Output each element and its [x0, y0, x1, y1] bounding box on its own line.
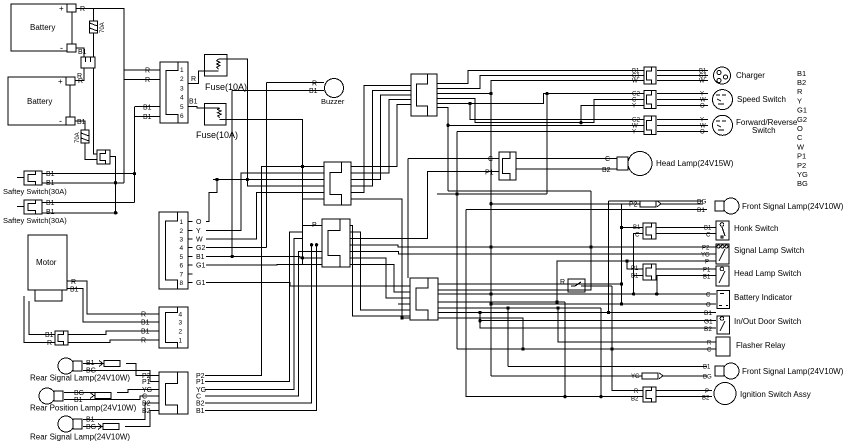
svg-text:B1: B1: [704, 226, 712, 232]
svg-text:-: -: [60, 43, 63, 53]
junction x508 r5: [506, 306, 509, 309]
wire P2 to front lamp1: [491, 203, 640, 205]
svg-text:+: +: [58, 77, 63, 86]
svg-text:B2: B2: [631, 397, 639, 403]
svg-text:4: 4: [180, 95, 184, 102]
wire J4 G1b to conn3: [206, 283, 410, 287]
wire x466 vertical ignition B2: [466, 210, 643, 397]
svg-text:O: O: [700, 104, 705, 110]
wire motor tab bottom down: [29, 301, 55, 335]
svg-text:W: W: [196, 237, 203, 244]
wire headlamp C right: [516, 158, 617, 160]
wire motor R to 4pin: [67, 281, 159, 314]
svg-text:R: R: [47, 340, 52, 347]
wire conn2b r2 to conn3 l5: [350, 232, 410, 310]
svg-text:Y: Y: [196, 228, 201, 235]
wire conn3 r1 row: [438, 283, 622, 285]
svg-text:W: W: [699, 79, 705, 85]
svg-text:BG: BG: [86, 424, 96, 431]
svg-text:B2: B2: [142, 401, 151, 408]
wire relay right: [585, 285, 612, 287]
connector C1 main top: [411, 74, 437, 116]
svg-text:4: 4: [179, 312, 183, 319]
svg-text:Saftey Switch(30A): Saftey Switch(30A): [3, 187, 67, 196]
connector headlamp sw plug: [643, 264, 656, 280]
junction x302 conn2b l6: [301, 256, 304, 259]
svg-text:G1: G1: [797, 106, 807, 115]
wire conn3 r3 battery C row: [438, 293, 716, 295]
fuse F3 10A: [205, 54, 227, 75]
connector C2b middle: [322, 219, 350, 267]
svg-text:C: C: [488, 156, 493, 163]
svg-text:P2: P2: [702, 246, 710, 252]
wire lamp2 BG row: [64, 392, 95, 394]
wire J4 O staircase: [206, 180, 217, 222]
svg-text:3: 3: [180, 237, 184, 244]
junction honk C on C row: [632, 292, 635, 295]
junction speed Y riser: [579, 121, 582, 124]
svg-text:C: C: [707, 348, 712, 354]
buzzer: [325, 79, 344, 98]
front signal lamp 2: [715, 363, 739, 379]
connector fwd/rev plug: [644, 116, 656, 135]
battery indicator: [717, 291, 730, 309]
svg-text:O: O: [700, 130, 705, 136]
svg-text:BG: BG: [697, 199, 706, 206]
junction hlsw P1 on P row: [625, 259, 628, 262]
svg-text:Battery Indicator: Battery Indicator: [734, 293, 793, 302]
junction FR G2 riser: [468, 102, 471, 105]
wire J4 Y to conn2a: [206, 173, 324, 230]
svg-text:B1: B1: [70, 287, 79, 294]
inline fuse front lamp1 P2: [640, 201, 661, 207]
stub J4 pin 1 right: [188, 221, 193, 223]
svg-text:BG: BG: [74, 390, 84, 397]
wire door G1 row: [480, 320, 716, 322]
wire lamp1 BG row: [83, 371, 159, 382]
svg-text:BG: BG: [797, 179, 808, 188]
svg-text:P1: P1: [196, 379, 205, 386]
svg-text:O: O: [706, 303, 711, 309]
svg-text:O: O: [196, 219, 202, 226]
wire ign P: [656, 390, 712, 392]
wire speed W: [657, 99, 708, 101]
junction x491 top: [489, 92, 492, 95]
wire J3 YG riser: [205, 238, 302, 389]
svg-text:B1: B1: [703, 365, 711, 371]
junction x491 C row: [489, 292, 492, 295]
svg-text:7: 7: [180, 271, 184, 278]
svg-text:B1: B1: [46, 171, 55, 178]
svg-text:Y: Y: [632, 104, 636, 110]
wire battery2 - to fuse2: [75, 121, 85, 130]
wire headlamp B2 right: [516, 168, 617, 170]
wire hlsw B1: [656, 275, 716, 277]
svg-text:B1: B1: [697, 207, 705, 214]
svg-text:Rear Signal Lamp(24V10W): Rear Signal Lamp(24V10W): [30, 374, 130, 383]
svg-text:R: R: [145, 68, 150, 75]
svg-text:B1: B1: [46, 200, 55, 207]
svg-text:Head Lamp(24V15W): Head Lamp(24V15W): [656, 159, 734, 168]
svg-text:P1: P1: [142, 379, 151, 386]
connector J2 4-pin: [159, 307, 188, 348]
wire 6pin B1 row2 tap: [135, 116, 161, 118]
stub J4 pin 6 right: [188, 264, 193, 266]
junction bus / safety1: [114, 181, 117, 184]
wire B1 bus from 6pin: [134, 107, 136, 202]
wire J4 W to conn2a: [206, 193, 324, 240]
svg-text:W: W: [632, 123, 638, 129]
wire bundle conn1-conn2a 1: [351, 86, 411, 193]
svg-text:B1: B1: [46, 180, 55, 187]
connector honk plug: [643, 223, 656, 239]
head lamp: [617, 152, 652, 176]
svg-text:Rear Signal Lamp(24V10W): Rear Signal Lamp(24V10W): [30, 433, 130, 442]
svg-text:B1: B1: [633, 225, 641, 231]
svg-text:B1: B1: [143, 105, 152, 112]
wire hlsw B1 riser from C row: [656, 276, 658, 294]
wire fuse2 to main connector: [85, 143, 97, 160]
wire conn2b r7 to conn3 l2: [350, 264, 410, 292]
svg-text:6: 6: [180, 113, 184, 120]
motor M box: [28, 235, 67, 301]
junction x608 door B1: [607, 311, 610, 314]
svg-text:Battery: Battery: [27, 97, 52, 106]
junction hlsw B1 on C row: [655, 292, 658, 295]
stub J4 pin 2 right: [188, 229, 193, 231]
wire bundle conn1-conn2a 3: [351, 95, 411, 180]
svg-text:R: R: [141, 338, 146, 345]
wire conn3 r5: [438, 307, 601, 309]
connector main power: [97, 150, 110, 164]
wire fuse1 out: [219, 59, 325, 186]
wire conn2a l6 stub: [303, 198, 325, 200]
wire conn2a r6 to conn3 l7: [351, 199, 410, 318]
junction y191 riser on P2 row: [589, 245, 592, 248]
svg-text:B1: B1: [309, 88, 318, 95]
wire ign B2: [656, 396, 712, 398]
svg-text:Y: Y: [632, 130, 636, 136]
wire fuse2 out to x302: [220, 120, 303, 265]
inline fuse rear lamp2: [90, 393, 111, 399]
junction x523 flasher C: [521, 347, 524, 350]
svg-text:B1: B1: [45, 332, 54, 339]
wire conn3 l4 stub: [398, 303, 410, 305]
wire honk B1 to switch: [656, 227, 716, 229]
svg-text:B2: B2: [797, 78, 806, 87]
wire J1 row5: [135, 106, 161, 108]
wire x408 vertical: [407, 159, 409, 279]
wire x457 riser: [456, 132, 458, 350]
wire fuse branch down to main connector: [94, 68, 98, 154]
connector J3 rear harness: [159, 372, 188, 414]
wire door B2 feed: [480, 313, 716, 329]
wire buzzer R feed: [267, 82, 325, 84]
wire small conn out B1: [68, 331, 159, 335]
wire J4 G1 to conn2b: [206, 263, 322, 266]
safety switch SW1 30A: [24, 171, 42, 185]
wire honk C riser: [634, 234, 643, 294]
junction P2 row x491: [489, 245, 492, 248]
battery B1 box: [11, 4, 76, 53]
svg-text:70A: 70A: [75, 132, 81, 143]
wire fwd/rev Y: [657, 118, 708, 120]
head lamp switch: [716, 266, 729, 286]
wire conn2b r5 YG long: [350, 251, 716, 254]
junction x457 y194: [455, 192, 458, 195]
svg-text:R: R: [80, 6, 85, 13]
wire conn1 r2 to charger C1: [437, 76, 644, 89]
wire lamp3 BG to conn B1: [125, 410, 159, 426]
wire safety1 top row: [42, 173, 135, 175]
wire front lamp2 B1: [508, 366, 707, 368]
junction J3 B2 riser: [310, 243, 313, 246]
svg-text:2: 2: [180, 76, 184, 83]
stub J4 pin 8 right: [188, 282, 193, 284]
wire safety2 top row to B1 bus: [42, 201, 135, 203]
in/out door switch: [717, 316, 730, 334]
svg-text:G2: G2: [196, 245, 205, 252]
svg-text:P: P: [705, 260, 709, 266]
wire x508 riser: [507, 308, 509, 367]
svg-text:P1: P1: [703, 268, 711, 274]
svg-text:B2: B2: [702, 396, 710, 402]
inline fuse front lamp2 YG: [642, 373, 663, 379]
fuse F4 10A: [205, 104, 227, 126]
wire lamp3 BG row: [83, 426, 103, 428]
svg-text:Y: Y: [797, 96, 802, 105]
wire conn1 r4 to speed C: [437, 99, 644, 123]
ignition switch assy: [714, 383, 736, 405]
svg-text:P1: P1: [485, 170, 494, 177]
rear position lamp: [39, 388, 63, 404]
wire motor B1 to 4pin: [67, 289, 159, 323]
wire front lamp1 BG: [609, 200, 704, 202]
svg-text:Head Lamp Switch: Head Lamp Switch: [734, 269, 801, 278]
svg-text:R: R: [797, 87, 803, 96]
wire V266 buzzer R bus: [266, 83, 268, 248]
wire front lamp1 B1 from x466: [466, 209, 707, 211]
junction fuse1 line l3: [246, 178, 249, 181]
svg-text:Front Signal Lamp(24V10W): Front Signal Lamp(24V10W): [742, 367, 844, 376]
svg-text:-: -: [59, 116, 62, 126]
svg-text:B1: B1: [797, 69, 806, 78]
svg-text:B2: B2: [142, 408, 151, 415]
svg-text:Charger: Charger: [736, 71, 765, 80]
junction x402 conn3 l7: [400, 316, 403, 319]
fwd/rev switch socket: [713, 115, 733, 135]
wire bundle conn1-conn2a 2: [351, 90, 411, 186]
svg-text:1: 1: [179, 338, 183, 345]
wire J4 B1 to conn2b: [206, 256, 322, 258]
svg-text:R: R: [312, 81, 317, 88]
rear signal lamp 1: [58, 358, 82, 374]
wire buzzer B1 feed: [232, 90, 324, 92]
speed switch socket: [713, 90, 733, 110]
wire J4 G2 to buzzer R bus: [206, 247, 267, 249]
svg-text:R: R: [141, 312, 146, 319]
wire conn3 r6 door B1 row: [438, 312, 716, 314]
svg-text:Buzzer: Buzzer: [321, 97, 345, 106]
wire J1 B1 to fuse 10A no.2: [188, 106, 220, 108]
svg-text:5: 5: [180, 104, 184, 111]
wire J3 C riser: [205, 251, 322, 396]
svg-text:C: C: [797, 133, 803, 142]
svg-text:2: 2: [180, 228, 184, 235]
wire conn2a l3 long: [213, 179, 324, 181]
svg-text:Signal Lamp Switch: Signal Lamp Switch: [734, 246, 804, 255]
junction FR W x448: [446, 124, 449, 127]
svg-text:1: 1: [180, 219, 184, 226]
battery B2 box: [8, 77, 75, 126]
junction honk B1 on x621: [620, 226, 623, 229]
svg-text:C: C: [706, 293, 711, 299]
svg-text:P1: P1: [797, 152, 806, 161]
connector speed plug: [644, 91, 656, 109]
connector C2a middle: [324, 162, 351, 205]
wire x591 riser: [438, 191, 591, 290]
wire fuse2 arrow to lamp: [663, 375, 707, 377]
svg-text:B2: B2: [704, 326, 712, 333]
wire bundle conn1-conn2a 4: [351, 100, 411, 173]
wire x608 vertical: [608, 201, 610, 313]
svg-text:B1: B1: [141, 320, 150, 327]
wire J3 P2 riser: [205, 167, 324, 376]
svg-text:YG: YG: [631, 374, 640, 380]
svg-text:B2: B2: [196, 401, 205, 408]
wire fwd/rev W: [657, 124, 708, 126]
wire flasher C row: [457, 348, 716, 350]
wire lamp1 B1 row: [83, 363, 104, 365]
junction x601 ign B2: [599, 395, 602, 398]
connector charger plug: [644, 67, 656, 84]
svg-text:B2: B2: [602, 167, 611, 174]
wire speed Y riser: [581, 106, 644, 123]
junction r5 x558: [556, 306, 559, 309]
svg-text:Saftey Switch(30A): Saftey Switch(30A): [3, 216, 67, 225]
svg-text:G2: G2: [797, 115, 807, 124]
rear signal lamp 2: [58, 416, 82, 432]
svg-text:C: C: [706, 233, 711, 239]
svg-text:P2: P2: [629, 202, 638, 209]
wire headlamp C feed: [408, 158, 499, 160]
svg-text:Honk Switch: Honk Switch: [734, 224, 778, 233]
wire fuse arrow to lamp: [661, 203, 703, 205]
junction V232 on B1 pin row: [231, 255, 234, 258]
svg-text:B1: B1: [77, 119, 86, 126]
svg-text:G1: G1: [196, 280, 205, 287]
signal lamp switch: [716, 244, 729, 264]
wire x491 long vertical: [490, 94, 492, 376]
svg-text:C: C: [605, 156, 610, 163]
wire conn2b r3 to headlamp P1: [350, 172, 499, 239]
connector J4 8-pin: [159, 212, 188, 289]
wire x612 vertical: [612, 286, 643, 391]
connector headlamp plug: [499, 152, 516, 180]
junction r1 x621: [620, 282, 623, 285]
wire FR Y row: [457, 131, 644, 133]
wire charger C1: [657, 75, 708, 77]
svg-text:5: 5: [180, 254, 184, 261]
svg-text:R: R: [71, 279, 76, 286]
svg-text:B1: B1: [631, 274, 639, 280]
wire J1 R to fuse 10A no.1: [188, 71, 219, 84]
svg-text:P2: P2: [797, 161, 806, 170]
junction x565 ign B2: [563, 395, 566, 398]
svg-text:YG: YG: [701, 253, 710, 259]
svg-text:Rear Position Lamp(24V10W): Rear Position Lamp(24V10W): [30, 404, 137, 413]
wire battery1 + to connector bus: [94, 9, 125, 70]
junction x547 G2 row: [545, 92, 548, 95]
wire honk B1 stub: [622, 227, 644, 229]
wire speed O: [657, 105, 708, 107]
wire conn1 r6 x448 down: [437, 108, 448, 192]
svg-text:R: R: [560, 279, 565, 286]
svg-text:Speed Switch: Speed Switch: [737, 95, 786, 104]
svg-text:4: 4: [180, 245, 184, 252]
svg-text:B1: B1: [143, 114, 152, 121]
wire fuse 70A to plug: [93, 33, 95, 57]
junction x491 O row: [489, 302, 492, 305]
svg-text:W: W: [632, 79, 638, 85]
svg-text:R: R: [707, 341, 712, 347]
stub J4 pin 4 right: [188, 247, 193, 249]
wire J3 B2 riser: [205, 245, 312, 403]
wire conn2b l1 stub: [303, 224, 323, 226]
connector C3 lower middle: [410, 278, 438, 320]
connector ignition plug: [643, 387, 656, 402]
stub J4 pin 5 right: [188, 255, 193, 257]
wire conn2b r4 P2 long: [350, 245, 716, 247]
wire charger W: [657, 80, 708, 82]
wire battery1 + to fuse 70A: [76, 9, 94, 21]
svg-text:+: +: [59, 4, 64, 13]
safety1 stub: [17, 177, 24, 179]
stub J4 pin 7 right: [188, 273, 193, 275]
flasher relay: [716, 337, 730, 356]
wire FR W row: [448, 124, 644, 126]
junction x621 on O row: [620, 302, 623, 305]
svg-text:C: C: [142, 394, 147, 401]
front signal lamp 1: [715, 198, 739, 214]
wire motor tab left down: [24, 296, 55, 343]
wire V232 buzzer B1 bus: [231, 91, 233, 257]
safety2 stub: [17, 206, 24, 208]
wire front lamp2 BG left: [491, 375, 642, 377]
svg-text:R: R: [634, 389, 639, 395]
wire plug to battery2 +: [75, 68, 84, 81]
plug connector battery series: [81, 57, 95, 68]
connector motor small: [55, 331, 68, 345]
wire x565 to ignition B2: [564, 302, 566, 397]
junction x480 G1 row: [478, 319, 481, 322]
svg-text:C: C: [635, 233, 640, 239]
charger socket: [714, 67, 731, 84]
wire conn1 r3 to charger W: [437, 81, 644, 94]
svg-text:G1: G1: [196, 263, 205, 270]
svg-text:R: R: [145, 77, 150, 84]
svg-text:1: 1: [180, 67, 184, 74]
inline fuse rear lamp1: [99, 361, 120, 367]
wire conn1 r1 to charger B1: [437, 70, 644, 83]
junction J3 B1 riser: [315, 243, 318, 246]
wire safety2 bottom row: [42, 212, 116, 214]
svg-text:In/Out Door Switch: In/Out Door Switch: [734, 317, 801, 326]
junction bus / safety2 top: [114, 211, 117, 214]
junction x612 flasher C: [610, 347, 613, 350]
svg-text:R: R: [191, 76, 196, 83]
svg-text:G1: G1: [704, 319, 713, 326]
